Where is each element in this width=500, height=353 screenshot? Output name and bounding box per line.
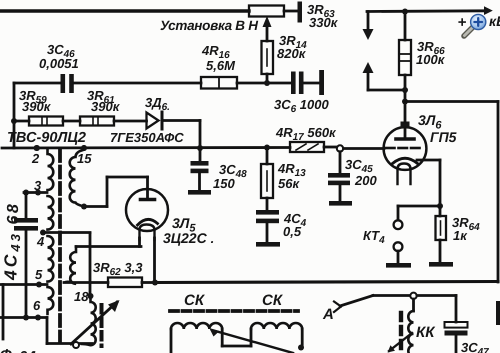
svg-text:390к: 390к bbox=[22, 99, 52, 114]
magnifier icon bbox=[464, 14, 486, 36]
arrow (КК adjuster) bbox=[389, 333, 412, 351]
label 3R66 100k bbox=[416, 39, 446, 67]
svg-text:0,5: 0,5 bbox=[283, 224, 302, 239]
wire right edge vertical bbox=[497, 102, 500, 283]
coil СК1 bbox=[171, 323, 222, 329]
svg-text:3Ц22С .: 3Ц22С . bbox=[163, 230, 214, 246]
svg-text:4С43: 4С43 bbox=[1, 231, 24, 281]
svg-text:04: 04 bbox=[19, 349, 36, 353]
pin 3 wire bbox=[24, 191, 47, 194]
wire left edge vertical bbox=[2, 285, 5, 340]
svg-text:Установка В Н: Установка В Н bbox=[160, 18, 258, 33]
transformer left winding bbox=[48, 149, 54, 190]
svg-text:150: 150 bbox=[213, 176, 235, 191]
svg-text:Ф: Ф bbox=[0, 347, 12, 353]
label 3Л5 3Ц22С bbox=[163, 215, 214, 246]
text fragments bottom edge bbox=[0, 347, 36, 353]
cathode bus y282 bbox=[155, 282, 498, 283]
transformer core dashes bbox=[58, 150, 62, 345]
label 4C4 0,5 bbox=[283, 211, 307, 239]
wire bbox=[284, 10, 297, 13]
wire pin18 branch bbox=[89, 233, 92, 296]
wire pin6 down to bottom bbox=[46, 318, 49, 344]
terminal bar (HV lead) bbox=[298, 2, 303, 23]
svg-text:+: + bbox=[458, 14, 467, 31]
svg-text:2: 2 bbox=[31, 151, 40, 166]
tube V5 (3Л5 3Ц22С) bbox=[126, 189, 168, 231]
svg-text:3: 3 bbox=[34, 178, 42, 193]
wire bbox=[63, 120, 80, 123]
spark gap bbox=[367, 12, 370, 31]
inductor W3 (regulator) bbox=[82, 299, 96, 345]
wire anode path V5 bbox=[84, 205, 107, 208]
diode D6 (3Д6) bbox=[147, 113, 159, 129]
resistor R63 (3R63) bbox=[249, 6, 284, 17]
label 3R63 330k bbox=[307, 2, 339, 30]
coil core dashes (СК) bbox=[170, 309, 298, 313]
label 3R59 390k bbox=[19, 88, 52, 114]
wire left branch bbox=[13, 83, 16, 148]
wire V6 cathode bbox=[417, 159, 440, 162]
label СК СК bbox=[184, 292, 284, 309]
terminal circle bottom bbox=[73, 342, 79, 348]
transformer winding W1 (pin15) bbox=[81, 145, 87, 151]
edge bar right bbox=[496, 301, 500, 325]
resistor R14 (3R14) bbox=[262, 41, 274, 74]
svg-text:СК: СК bbox=[184, 292, 206, 309]
pin 5 wire bbox=[0, 283, 47, 286]
svg-text:5: 5 bbox=[35, 267, 43, 282]
wire grid bus y148 bbox=[2, 146, 290, 149]
label 3R64 1k bbox=[452, 215, 480, 243]
label 3R14 820k bbox=[277, 33, 307, 61]
pin 2 bbox=[34, 145, 40, 151]
svg-text:6: 6 bbox=[33, 298, 41, 313]
resistor R59 (3R59) bbox=[14, 120, 29, 123]
resistor R13 (4R13) bbox=[266, 148, 269, 165]
capacitor C6 (3C6) bbox=[291, 72, 296, 95]
svg-text:КТ4: КТ4 bbox=[363, 228, 385, 246]
label 3R61 390k bbox=[87, 88, 121, 114]
wire top right +kV bbox=[367, 9, 485, 12]
wire: top HV bus bbox=[0, 9, 249, 12]
svg-text:А: А bbox=[322, 306, 334, 323]
svg-text:3С47: 3С47 bbox=[461, 340, 489, 353]
node circle (switch) bbox=[410, 293, 416, 299]
label 3C46 0,0051 bbox=[39, 42, 79, 71]
pin 4 wire bbox=[40, 230, 46, 236]
svg-text:3R62 3,3: 3R62 3,3 bbox=[93, 260, 143, 278]
potentiometer wiper arrow bbox=[266, 25, 269, 41]
label 3C45 200 bbox=[345, 157, 377, 188]
coil СК2 bbox=[250, 329, 253, 346]
wire node to tube grid bbox=[344, 147, 385, 150]
svg-text:4: 4 bbox=[36, 234, 45, 249]
svg-text:56к: 56к bbox=[278, 176, 300, 191]
svg-text:СК: СК bbox=[262, 292, 284, 309]
resistor R61 (3R61) bbox=[80, 117, 114, 126]
capacitor C47 (3C47) bbox=[417, 294, 456, 297]
svg-text:7ГЕ350АФС: 7ГЕ350АФС bbox=[110, 130, 184, 145]
svg-text:ТВС-90ЛЦ2: ТВС-90ЛЦ2 bbox=[7, 130, 86, 146]
capacitor C4 (4C4) bbox=[256, 210, 279, 215]
resistor R16 (4R16) bbox=[201, 77, 237, 89]
svg-text:3Д6.: 3Д6. bbox=[145, 95, 170, 113]
test point KT4 bbox=[397, 206, 400, 220]
svg-text:200: 200 bbox=[354, 173, 377, 188]
svg-text:15: 15 bbox=[77, 151, 92, 166]
svg-text:3С6 1000: 3С6 1000 bbox=[274, 97, 329, 115]
svg-text:330к: 330к bbox=[309, 15, 339, 30]
pin 6 wire bbox=[0, 316, 47, 319]
svg-text:0,0051: 0,0051 bbox=[39, 56, 79, 71]
svg-text:68: 68 bbox=[5, 202, 22, 225]
transformer winding W2 bbox=[76, 245, 141, 248]
wire mid bus y83 bbox=[14, 82, 61, 85]
svg-text:1к: 1к bbox=[453, 228, 468, 243]
arrow (СК1 adjuster) bbox=[212, 330, 293, 353]
wire bbox=[114, 120, 147, 123]
svg-text:18: 18 bbox=[74, 289, 89, 304]
wire anode branch with dots bbox=[402, 87, 408, 93]
label 3Л6 ГП5 bbox=[418, 112, 457, 145]
svg-text:ГП5: ГП5 bbox=[430, 129, 457, 145]
svg-text:КК: КК bbox=[416, 324, 436, 341]
label 3C48 150 bbox=[213, 162, 247, 191]
capacitor C46 (3C46) bbox=[61, 74, 66, 93]
capacitor C45 (3C45) bbox=[339, 152, 342, 173]
coil КК bbox=[412, 299, 415, 311]
resistor R66 (3R66) bbox=[404, 11, 407, 40]
tube V6 (3Л6 ГП5) bbox=[384, 127, 427, 170]
svg-text:кВ: кВ bbox=[489, 13, 500, 29]
resistor R17 (4R17) bbox=[290, 142, 324, 152]
svg-text:100к: 100к bbox=[416, 52, 446, 67]
resistor R64 (3R64) bbox=[439, 206, 442, 216]
label 4R13 56k bbox=[277, 161, 306, 191]
capacitor C43 (4C43 68) bbox=[25, 193, 28, 219]
node circle bbox=[337, 145, 343, 151]
svg-text:5,6М: 5,6М bbox=[206, 58, 236, 73]
terminal bar (3C6 right) bbox=[319, 70, 324, 95]
wire diode to node bbox=[162, 119, 200, 122]
label + кВ bbox=[458, 13, 500, 31]
svg-text:390к: 390к bbox=[91, 99, 121, 114]
svg-text:820к: 820к bbox=[277, 46, 307, 61]
resistor R62 (3R62) bbox=[64, 281, 108, 284]
junction dot bbox=[264, 80, 270, 86]
svg-text:4R17 560к: 4R17 560к bbox=[275, 125, 337, 143]
label 4R16 5,6M bbox=[201, 43, 236, 73]
arrow (W3 adjuster) bbox=[71, 302, 117, 344]
capacitor C48 (3C48) bbox=[199, 148, 202, 161]
